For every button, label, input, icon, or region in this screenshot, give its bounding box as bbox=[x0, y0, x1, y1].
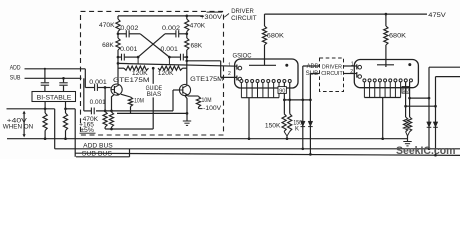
svg-text:ADD BUS: ADD BUS bbox=[83, 143, 113, 150]
svg-text:0.001: 0.001 bbox=[161, 47, 179, 53]
svg-text:90: 90 bbox=[279, 88, 285, 94]
svg-text:ADD: ADD bbox=[307, 64, 320, 70]
svg-text:475V: 475V bbox=[428, 12, 446, 19]
svg-text:1: 1 bbox=[351, 61, 354, 67]
svg-text:1: 1 bbox=[228, 62, 231, 68]
svg-text:10M: 10M bbox=[134, 98, 144, 104]
svg-text:+300V: +300V bbox=[200, 14, 223, 21]
svg-text:470K: 470K bbox=[190, 23, 206, 30]
svg-text:WHEN ON: WHEN ON bbox=[3, 124, 34, 131]
svg-text:68K: 68K bbox=[191, 42, 203, 49]
svg-text:SUB: SUB bbox=[10, 74, 21, 81]
svg-text:0.002: 0.002 bbox=[162, 25, 181, 32]
svg-text:DRIVER: DRIVER bbox=[322, 65, 342, 71]
svg-text:K: K bbox=[295, 127, 299, 133]
svg-text:68K: 68K bbox=[102, 42, 114, 49]
svg-text:120K: 120K bbox=[158, 70, 175, 77]
svg-text:2: 2 bbox=[350, 69, 353, 75]
svg-text:BIAS: BIAS bbox=[147, 91, 162, 98]
svg-text:SUB BUS: SUB BUS bbox=[82, 150, 112, 157]
svg-text:0.002: 0.002 bbox=[120, 25, 139, 32]
svg-text:CIRCUIT: CIRCUIT bbox=[321, 71, 343, 77]
svg-text:GSIOC: GSIOC bbox=[233, 52, 252, 59]
svg-text:680K: 680K bbox=[389, 33, 407, 40]
svg-text:470K: 470K bbox=[99, 22, 115, 29]
svg-text:0.001: 0.001 bbox=[120, 47, 138, 53]
svg-text:GTE175M: GTE175M bbox=[113, 77, 150, 84]
svg-text:ADD: ADD bbox=[10, 65, 21, 72]
svg-text:SeekIC.com: SeekIC.com bbox=[396, 145, 456, 157]
svg-text:10M: 10M bbox=[202, 98, 212, 104]
svg-text:CIRCUIT: CIRCUIT bbox=[231, 15, 257, 22]
svg-text:680K: 680K bbox=[267, 33, 285, 40]
svg-text:SUB: SUB bbox=[306, 71, 319, 77]
svg-text:2: 2 bbox=[228, 71, 231, 77]
svg-text:120K: 120K bbox=[132, 70, 149, 77]
svg-text:BI-STABLE: BI-STABLE bbox=[37, 94, 72, 101]
svg-text:150K: 150K bbox=[265, 123, 281, 129]
svg-text:0.001: 0.001 bbox=[90, 100, 107, 106]
svg-text:GTE175M: GTE175M bbox=[190, 76, 223, 83]
svg-text:0.001: 0.001 bbox=[89, 80, 107, 86]
svg-text:-100V: -100V bbox=[203, 106, 221, 112]
